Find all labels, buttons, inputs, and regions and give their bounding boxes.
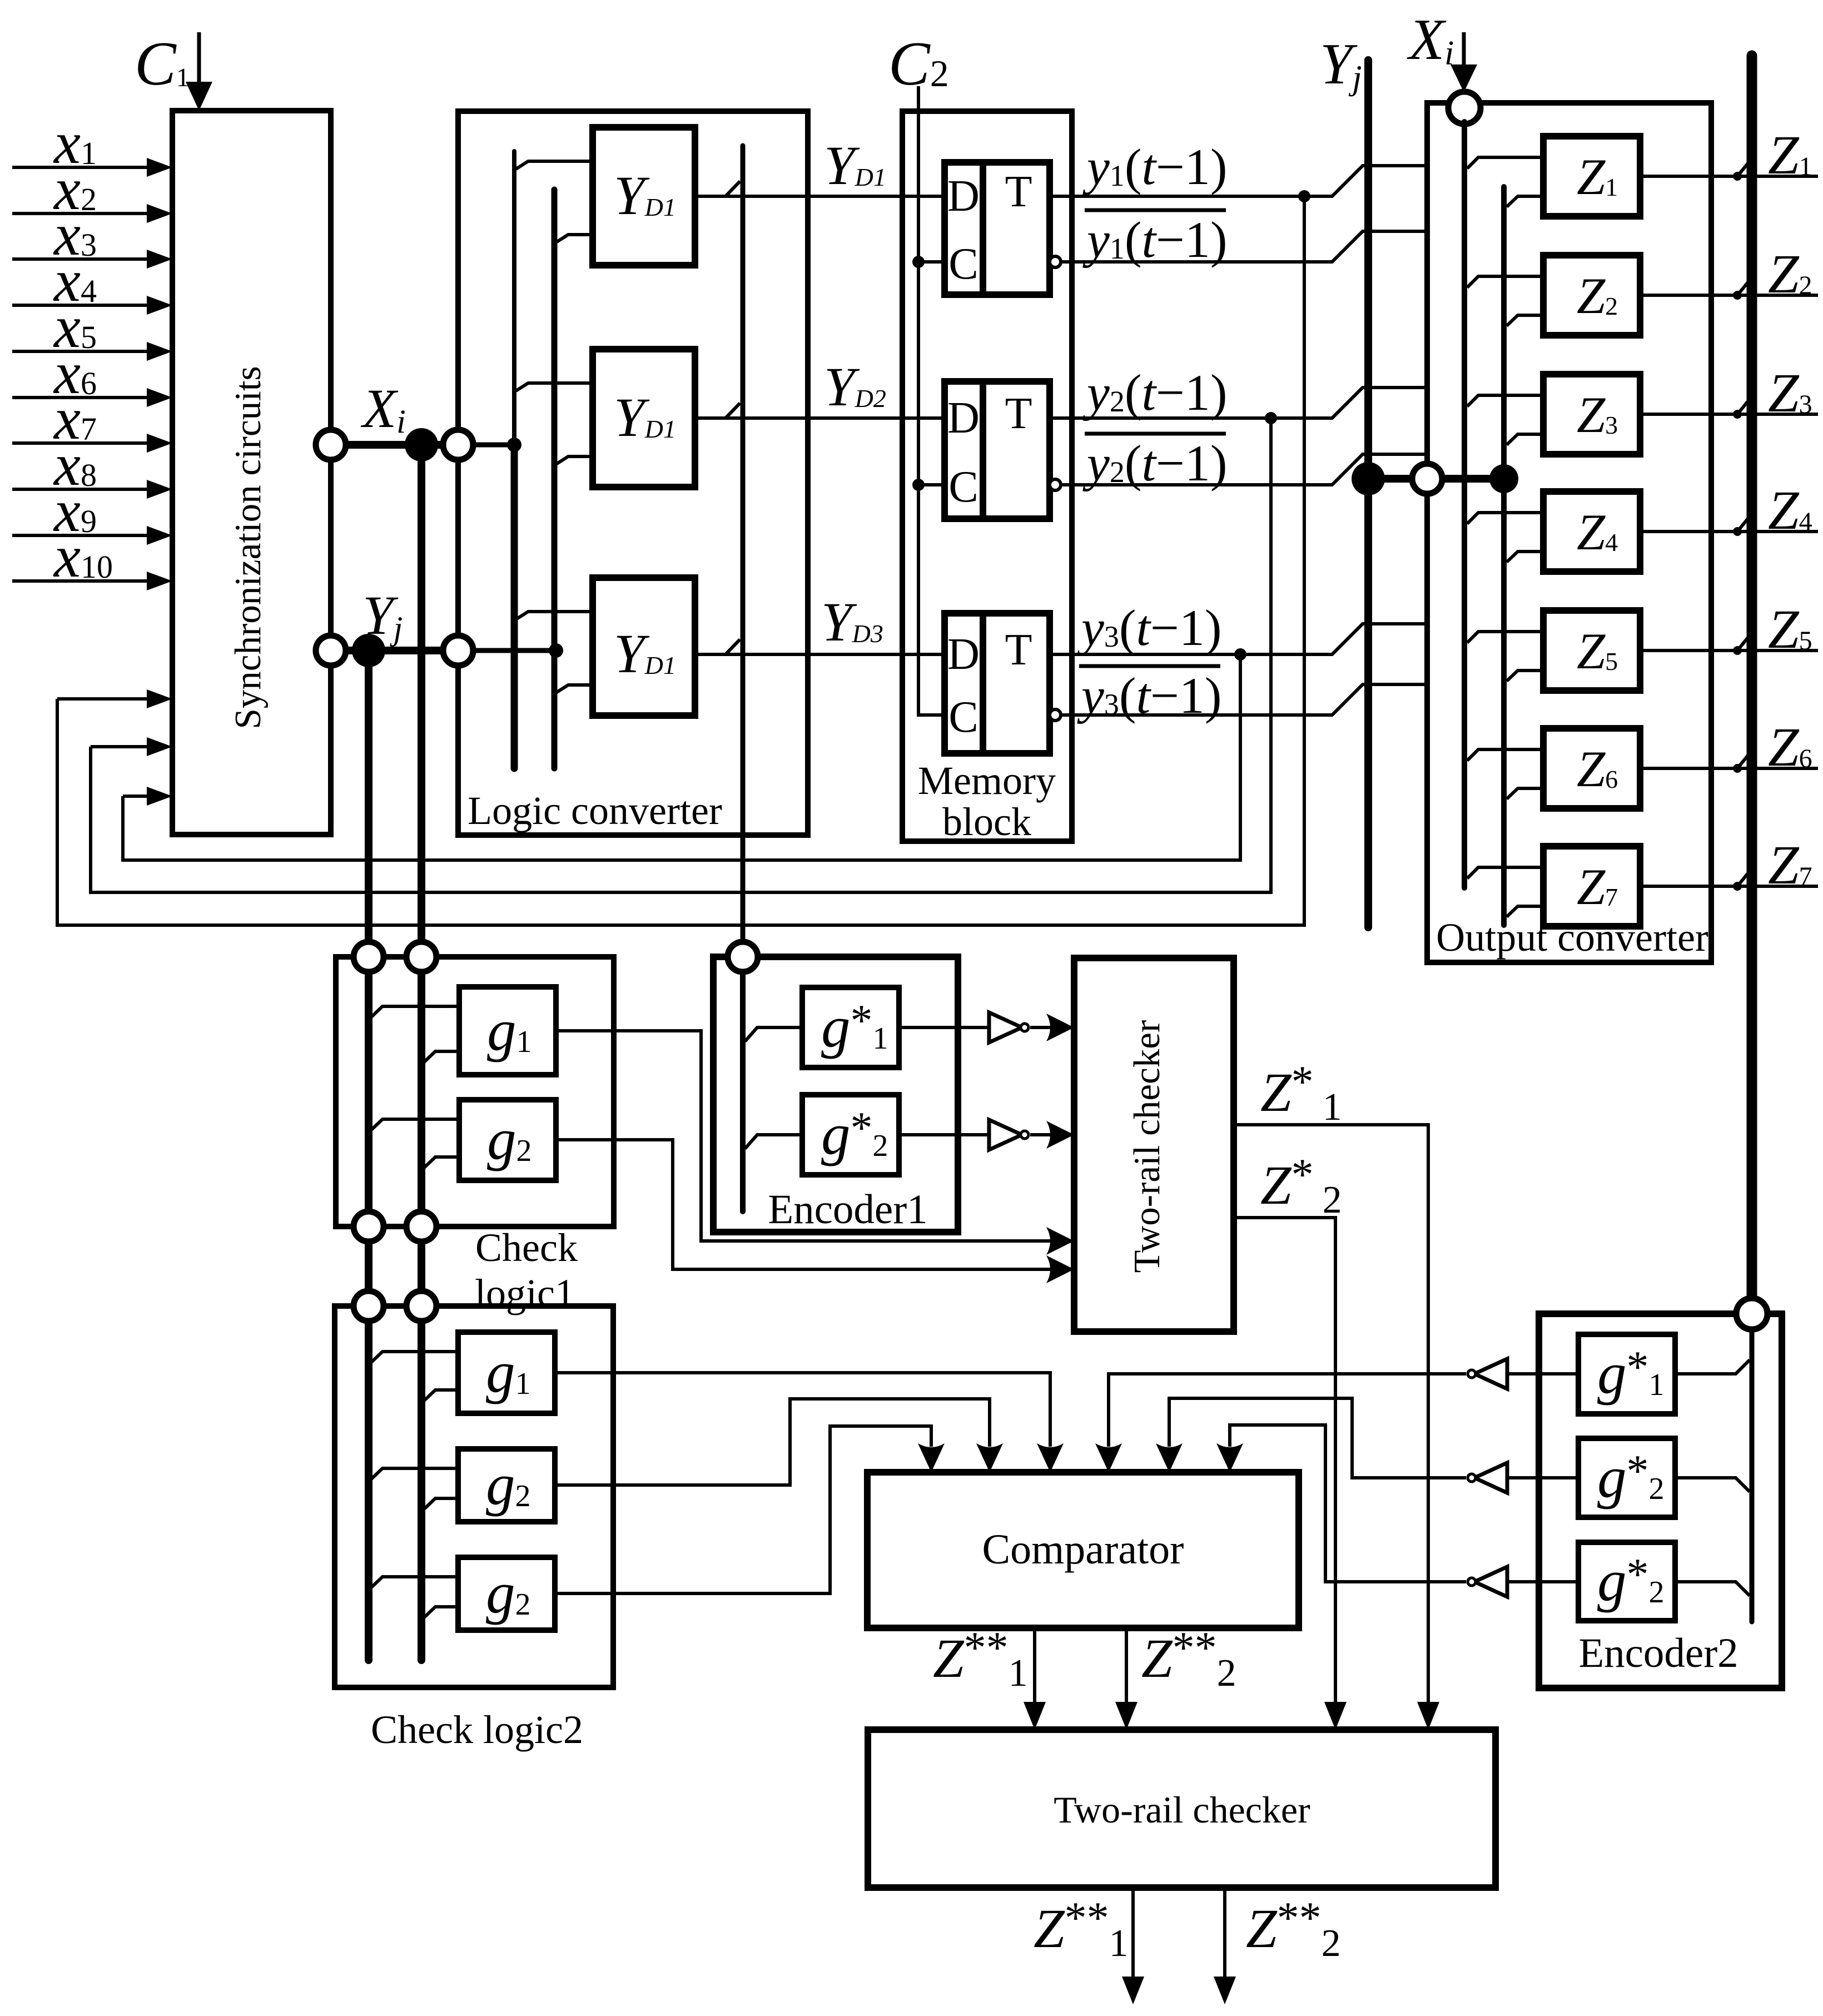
wire YD2 upper input from bus1 (516, 383, 593, 391)
block Output converter (1427, 103, 1711, 962)
wire Z*2 output (1234, 1218, 1335, 1704)
wire YD3 lower input from bus2 (556, 685, 593, 693)
bus internal to Encoder1 (bus3) (741, 146, 746, 957)
block Z1 (1543, 136, 1640, 216)
wire YD2 output (695, 416, 945, 420)
wire YD1 lower input from bus2 (556, 235, 593, 242)
node Yj through Check logic1 top (354, 942, 384, 972)
wire input x4 (12, 304, 148, 307)
inverter NOT1 (989, 1012, 1022, 1042)
wire y1(t-1) output (1050, 166, 1427, 196)
wire Z2 upper input from bus A (1467, 276, 1543, 287)
junction Yj on internal bus B (1489, 464, 1518, 493)
wire YD1 output (695, 195, 945, 198)
wire input x9 (12, 534, 148, 537)
wire Yj bus horizontal (346, 647, 443, 654)
wire feedback input 3 (from y3) (123, 795, 148, 798)
bus Yj internal vertical (B) (1501, 187, 1507, 925)
wires g1 inputs (370, 1352, 458, 1363)
slash Z2 to right bus (1737, 280, 1750, 295)
wire Xi arrow into output converter (1462, 32, 1466, 67)
wire g*2 input from bus (745, 1135, 802, 1149)
wire Z1 output (1640, 175, 1818, 178)
block Check logic1 (336, 957, 614, 1227)
wire g1 to Two-rail checker (556, 1031, 1051, 1241)
wire input x3 (12, 257, 148, 261)
svg-text:Memory: Memory (918, 758, 1056, 803)
node right bus into Encoder2 (1736, 1298, 1767, 1329)
wire YD3 output (695, 653, 945, 656)
wire Z**1 comparator output (1033, 1628, 1036, 1704)
node right bus into Encoder2 (top) (1736, 1298, 1767, 1329)
wire g*2a output to inverter (1507, 1476, 1578, 1479)
block Two-rail checker bottom (868, 1730, 1496, 1888)
wire C2 to FF2 C input (918, 483, 945, 486)
block Z7 (1543, 846, 1640, 926)
block YD1 converter 2 (593, 349, 695, 487)
wire Z**2 comparator output (1125, 1628, 1128, 1704)
wire g*1 output to inverter (899, 1026, 989, 1029)
wire Z5 upper input from bus A (1467, 632, 1543, 643)
block Z4 (1543, 491, 1640, 572)
slash on YD3 output (726, 639, 740, 654)
node Yj through Check logic1 bottom (354, 1211, 384, 1242)
wire Z7 lower input from bus B (1507, 906, 1543, 917)
wire g*1-inv to comparator (1109, 1374, 1466, 1447)
svg-text:Check logic2: Check logic2 (371, 1707, 583, 1752)
junction Z1 output to bus (1733, 172, 1742, 181)
svg-text:D: D (947, 394, 980, 443)
node Yj into logic converter (443, 635, 473, 666)
inverter bubble DFF1 (1050, 256, 1061, 267)
block Z3 (1543, 374, 1640, 454)
wire Z6 upper input from bus A (1467, 749, 1543, 761)
node bus3 into Encoder1 (728, 942, 758, 972)
junction Z4 output to bus (1733, 527, 1742, 536)
bus internal Yj (bus2) (552, 190, 558, 768)
inverter NOT g*1 (1474, 1359, 1507, 1389)
wire feedback y3 loop (123, 654, 1240, 860)
junction feedback tap on y3(t-1) (1234, 648, 1246, 661)
bus Yj vertical (1364, 60, 1372, 927)
wire input x2 (12, 212, 148, 215)
wires g1 inputs (370, 1006, 459, 1018)
wire g2 to Two-rail checker (556, 1140, 1051, 1269)
bus Xi internal vertical (A) (1462, 122, 1467, 888)
slash Z4 to right bus (1737, 517, 1750, 532)
wire Z*1 output (1234, 1125, 1428, 1704)
block Z5 (1543, 610, 1640, 691)
svg-text:Output converter: Output converter (1436, 915, 1708, 960)
wire g*2 output to inverter (899, 1133, 989, 1136)
node Yj output of synchronizer (316, 635, 346, 666)
wire YD3 upper input from bus1 (516, 612, 593, 619)
block Memory block (902, 111, 1072, 841)
wire Xi into converter (473, 443, 514, 448)
wire Yj into converter (473, 648, 556, 653)
block g1 of Check logic1 (459, 987, 556, 1075)
wire g*2b-inv to comparator (1230, 1425, 1466, 1582)
wire g2b (check2) to comparator (555, 1426, 931, 1593)
flip-flop DFF1 (945, 162, 1050, 295)
svg-text:Two-rail checker: Two-rail checker (1126, 1020, 1168, 1273)
junction Z3 output to bus (1733, 410, 1742, 419)
svg-text:T: T (1005, 625, 1032, 674)
svg-text:y3(t−1): y3(t−1) (1077, 667, 1222, 724)
bus Xi vertical drop (418, 445, 425, 1660)
bus output right vertical (1747, 56, 1757, 1298)
junction Z7 output to bus (1733, 882, 1742, 891)
wires g2 inputs (370, 1119, 459, 1131)
inverter NOT2 (989, 1120, 1022, 1150)
block g2b of Check logic2 (458, 1557, 555, 1630)
block g*1 of Encoder1 (802, 987, 899, 1067)
wire Z7 upper input from bus A (1467, 867, 1543, 878)
junction on internal bus2 (549, 643, 563, 658)
wire g*2a input from right bus (1675, 1478, 1750, 1492)
junction feedback tap on y2(t-1) (1265, 412, 1277, 424)
wire g*1 output to inverter (1539, 1372, 1578, 1376)
wire Xi bus horizontal (346, 441, 443, 449)
node Xi through Check logic1 top (406, 942, 436, 972)
flip-flop DFF2 (945, 381, 1050, 519)
wire Z**2 final output (1223, 1888, 1226, 1979)
block Two-rail checker upper (1074, 958, 1234, 1332)
wire g*2a-inv to comparator (1169, 1398, 1466, 1478)
wire y2(t-1) output (1050, 388, 1427, 418)
wire Yj into output converter (1368, 475, 1504, 483)
block g*2 of Encoder1 (802, 1095, 899, 1175)
block Z2 (1543, 255, 1640, 335)
block g1 of Check logic2 (458, 1332, 555, 1413)
wire Z4 output (1640, 530, 1818, 533)
inverter bubble DFF2 (1050, 479, 1061, 490)
svg-text:Encoder1: Encoder1 (768, 1186, 927, 1233)
node Xi into logic converter (top) (443, 430, 473, 460)
svg-text:D: D (947, 630, 980, 679)
junction Z6 output to bus (1733, 764, 1742, 773)
bus Encoder1 internal vertical (740, 972, 746, 1211)
block g*2b of Encoder2 (1578, 1542, 1675, 1621)
block g2 of Check logic2 (458, 1449, 555, 1522)
wire YD2 lower input from bus2 (556, 456, 593, 464)
node Xi entry circle (1448, 92, 1481, 124)
wire C1 clock input (197, 32, 201, 83)
bus Encoder2 internal vertical (1750, 1329, 1755, 1622)
inverter bubble DFF3 (1050, 709, 1061, 721)
junction feedback tap on y1(t-1) (1298, 190, 1310, 202)
svg-text:y1(t−1): y1(t−1) (1082, 211, 1228, 268)
svg-text:C: C (948, 693, 978, 742)
wire ybar2(t-1) output (1062, 454, 1427, 485)
wire Z4 lower input from bus B (1507, 552, 1543, 562)
svg-text:y1(t−1): y1(t−1) (1082, 138, 1228, 195)
svg-text:C: C (948, 240, 978, 289)
node Xi output of synchronizer (316, 430, 346, 460)
wire Z5 output (1640, 649, 1818, 652)
slash Z5 to right bus (1737, 635, 1750, 651)
bus Yj vertical drop (365, 651, 372, 1660)
svg-text:Two-rail checker: Two-rail checker (1054, 1789, 1310, 1831)
block Synchronization circuits (172, 111, 331, 835)
wire ybar3(t-1) output (1062, 684, 1427, 715)
block Encoder2 (1539, 1314, 1782, 1688)
node Yj entry into output converter (top) (1412, 464, 1442, 494)
wire g*2b output to inverter (1507, 1580, 1578, 1583)
block Logic converter (458, 111, 808, 835)
node Xi into logic converter (443, 430, 473, 460)
wire input x5 (12, 350, 148, 353)
block YD1 converter 1 (593, 127, 695, 265)
junction Yj (352, 634, 385, 667)
wire feedback input 2 (from y2) (91, 745, 148, 748)
block g2 of Check logic1 (459, 1100, 556, 1180)
wire Z**1 final output (1131, 1888, 1135, 1979)
inverter NOT g*2b (1474, 1567, 1507, 1597)
svg-text:Encoder2: Encoder2 (1578, 1630, 1738, 1676)
block Check logic2 (335, 1306, 613, 1687)
wires g2b inputs (370, 1577, 458, 1588)
slash on YD2 output (726, 403, 740, 418)
junction Z5 output to bus (1733, 646, 1742, 655)
node Xi through Check logic2 top (406, 1291, 436, 1321)
wire Z4 upper input from bus A (1467, 513, 1543, 524)
wire Z3 output (1640, 413, 1818, 416)
junction on internal bus1 (507, 438, 521, 452)
wire input x8 (12, 488, 148, 491)
wire C2 clock line (918, 86, 945, 715)
block Comparator (867, 1472, 1299, 1628)
slash Z3 to right bus (1737, 399, 1750, 414)
junction Z2 output to bus (1733, 291, 1742, 300)
wire Z6 output (1640, 767, 1818, 770)
wire y3(t-1) output (1050, 624, 1427, 654)
slash Z7 to right bus (1737, 871, 1750, 886)
slash on YD1 output (726, 181, 740, 196)
block Encoder1 (713, 957, 958, 1232)
junction C2 to FF1 (912, 256, 925, 268)
wire Z2 output (1640, 294, 1818, 297)
wire inverter1 to checker (1030, 1026, 1051, 1029)
wire g*1 input from right bus (1675, 1360, 1750, 1374)
wire g*1 input from bus (745, 1027, 802, 1041)
wire g*2b input from right bus (1675, 1582, 1750, 1596)
wire Z2 lower input from bus B (1507, 315, 1543, 326)
wire Z6 lower input from bus B (1507, 788, 1543, 799)
block g*1 of Encoder2 (1578, 1334, 1675, 1414)
junction Yj to output converter (1352, 462, 1385, 495)
svg-text:Synchronization circuits: Synchronization circuits (227, 366, 269, 729)
wire g1 (check2) to comparator (555, 1373, 1050, 1447)
wire Z7 output (1640, 885, 1818, 888)
wire input x1 (12, 166, 148, 169)
block YD1 converter 3 (593, 578, 695, 716)
slash Z1 to right bus (1737, 161, 1750, 176)
wire C2 to FF1 C input (918, 260, 945, 264)
wire Z1 upper input from bus A (1467, 157, 1543, 168)
svg-text:T: T (1005, 167, 1032, 216)
svg-text:y2(t−1): y2(t−1) (1082, 364, 1228, 421)
flip-flop DFF3 (945, 613, 1050, 753)
svg-text:D: D (947, 172, 980, 221)
bus internal Xi (bus1) (512, 151, 516, 445)
wire Z5 lower input from bus B (1507, 671, 1543, 681)
block g*2a of Encoder2 (1578, 1438, 1675, 1517)
block Z6 (1543, 728, 1640, 808)
wire input x6 (12, 396, 148, 399)
wire inverter2 to checker (1030, 1133, 1051, 1136)
wire Z1 lower input from bus B (1507, 196, 1543, 207)
svg-text:C: C (948, 463, 978, 512)
wire feedback input 1 (from y1) (57, 697, 148, 701)
svg-text:y2(t−1): y2(t−1) (1082, 435, 1228, 491)
node Yj entry circle (1412, 464, 1442, 494)
wire Z3 upper input from bus A (1467, 395, 1543, 406)
node Yj into logic converter (top) (443, 635, 473, 666)
wire g2 (check2) to comparator (555, 1399, 990, 1485)
svg-text:T: T (1005, 389, 1032, 438)
wires g2 inputs (370, 1468, 458, 1480)
wire YD1 upper input from bus1 (516, 161, 593, 169)
inverter NOT g*2a (1474, 1463, 1507, 1493)
svg-text:y3(t−1): y3(t−1) (1077, 599, 1222, 656)
junction Xi (405, 428, 438, 461)
svg-text:Comparator: Comparator (982, 1526, 1184, 1573)
node Xi through Check logic1 bottom (406, 1211, 436, 1242)
svg-text:Logic converter: Logic converter (468, 788, 722, 833)
wire Z3 lower input from bus B (1507, 434, 1543, 445)
wire feedback y1 loop (57, 196, 1304, 925)
wire input x7 (12, 441, 148, 445)
wire ybar1(t-1) output (1062, 231, 1427, 262)
svg-text:Check: Check (475, 1225, 578, 1270)
node Yj through Check logic2 top (354, 1291, 384, 1321)
svg-text:block: block (942, 800, 1031, 844)
junction C2 to FF2 (912, 479, 925, 491)
wire feedback y2 loop (91, 418, 1271, 892)
wire input x10 (12, 579, 148, 583)
slash Z6 to right bus (1737, 753, 1750, 768)
